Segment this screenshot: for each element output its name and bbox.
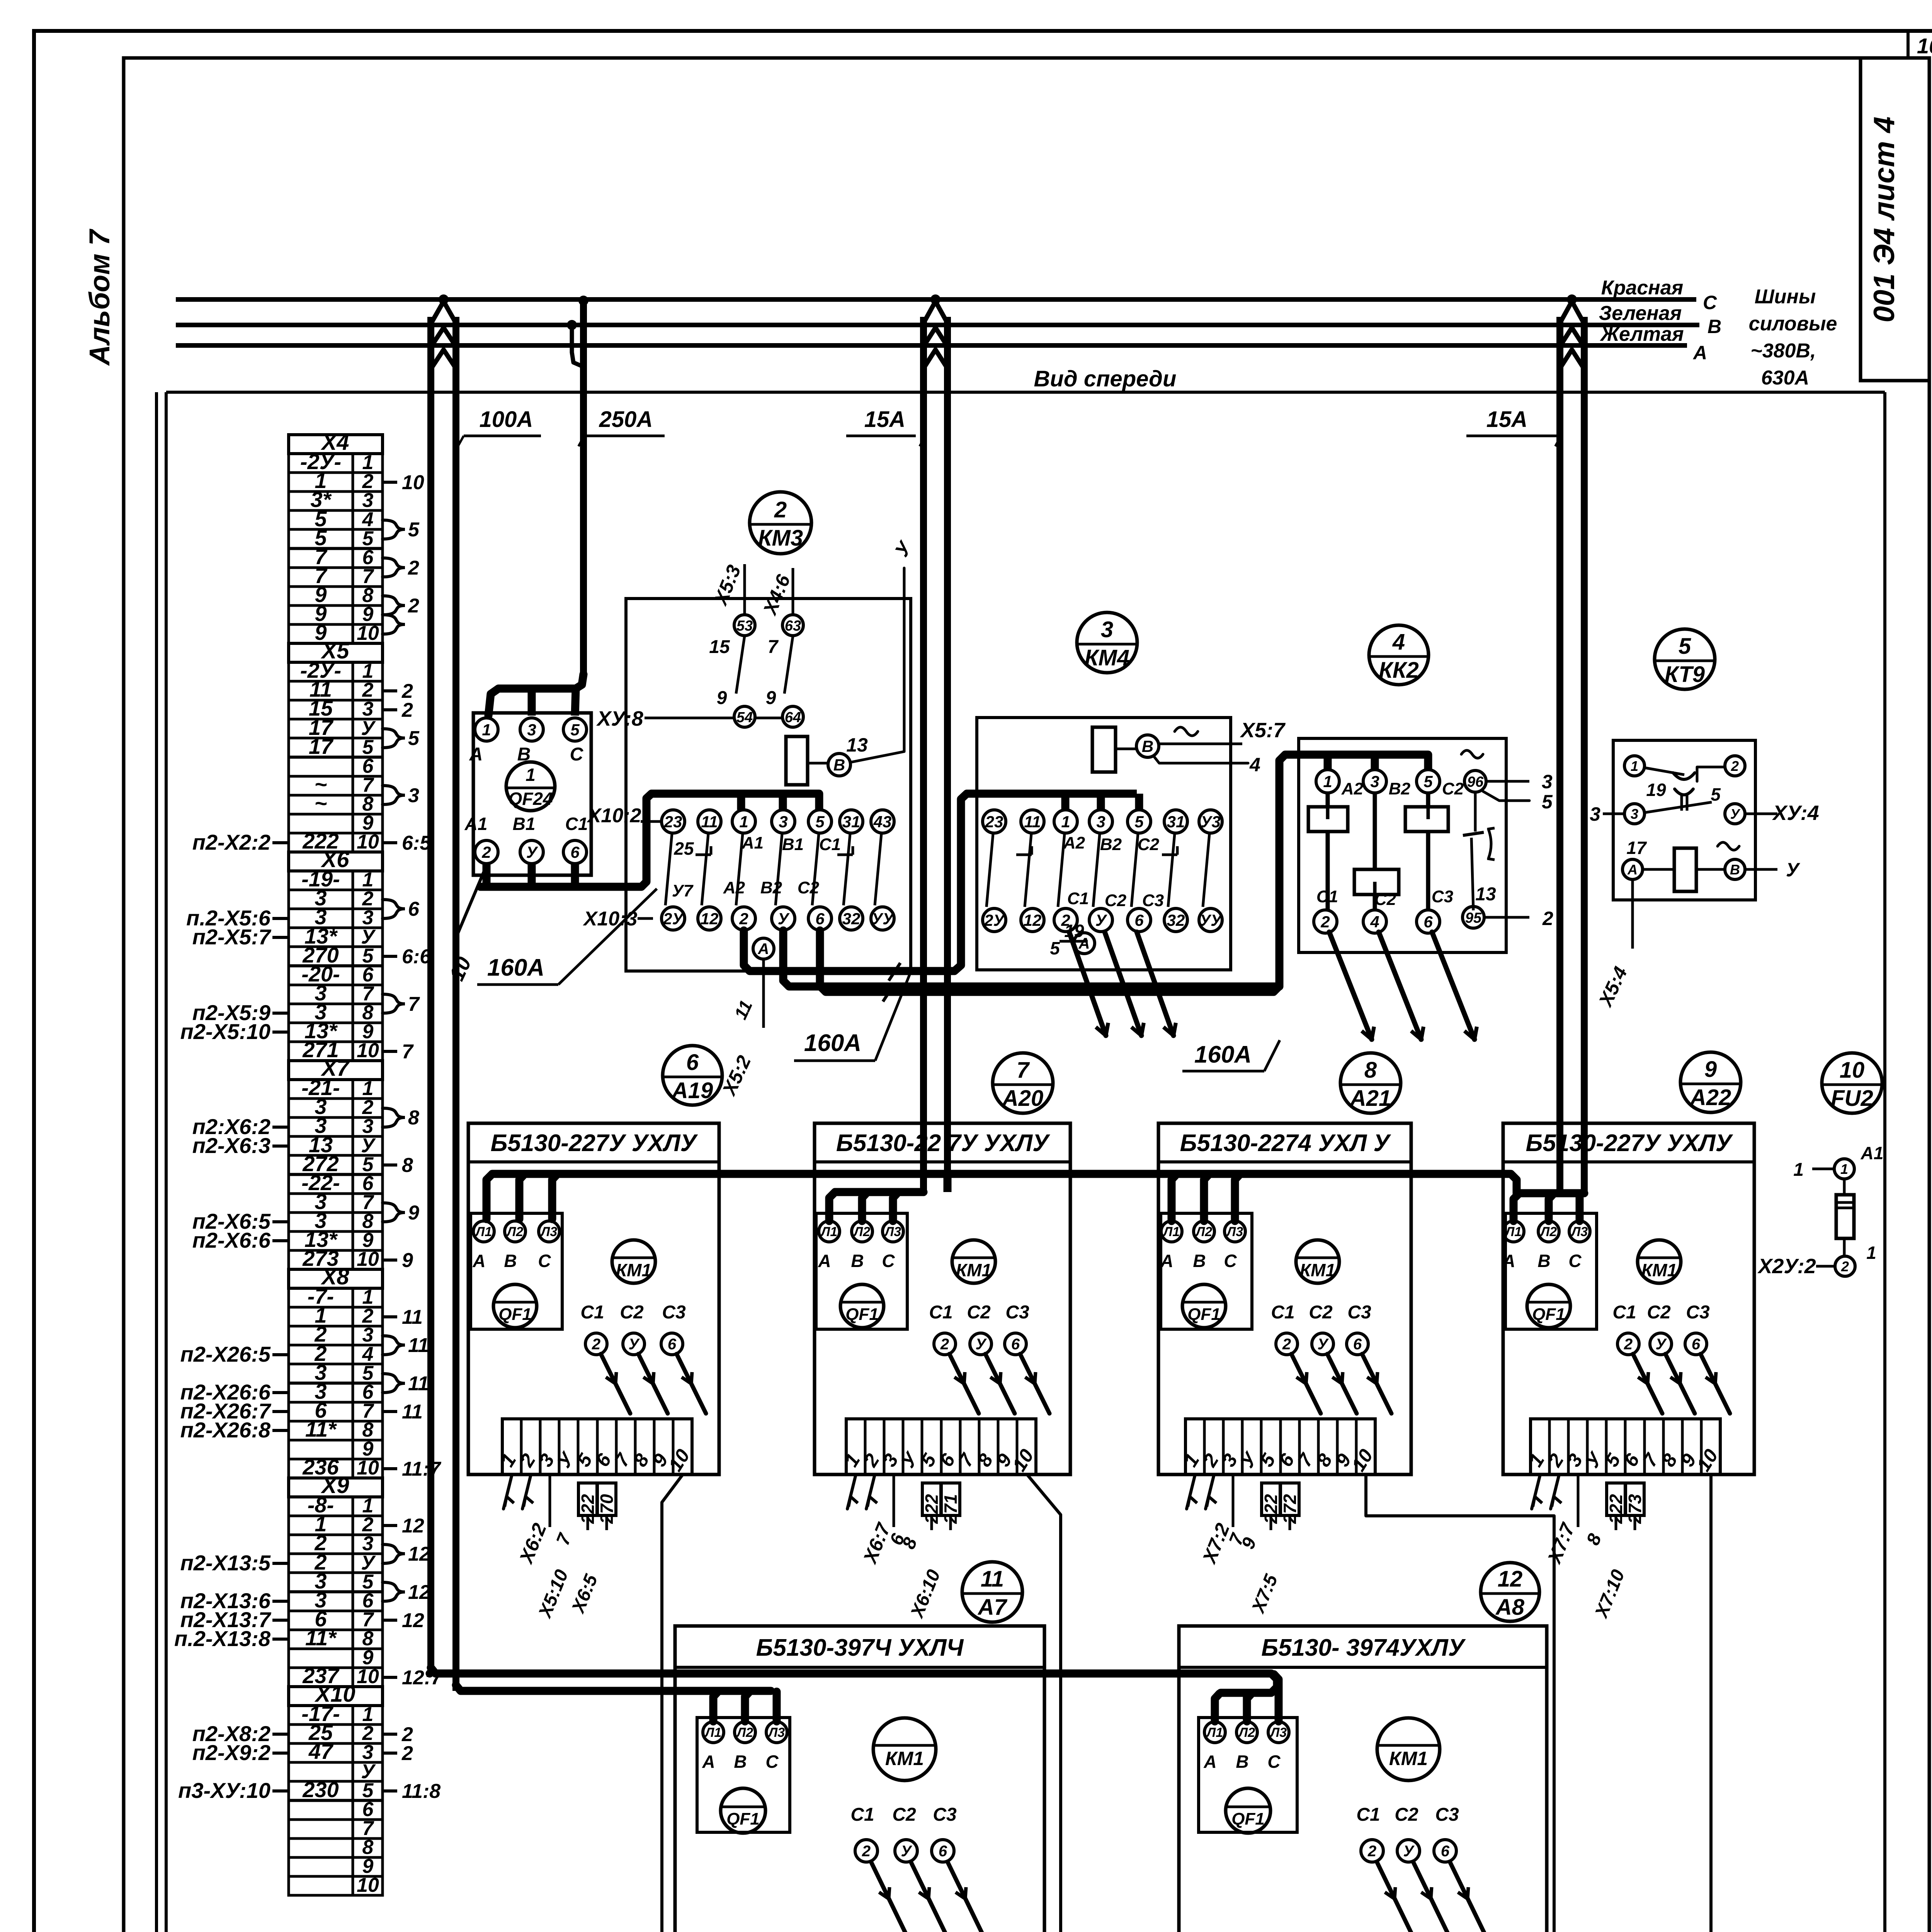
wire stub А21 Л3 — [1235, 1175, 1240, 1221]
svg-text:С1: С1 — [565, 814, 588, 834]
terminal X4:5 — [289, 529, 383, 548]
terminal X8:9 — [289, 1440, 383, 1459]
svg-text:С3: С3 — [1435, 1804, 1459, 1825]
wire KM3 output У to KK2 feed — [783, 930, 1279, 986]
svg-text:2: 2 — [1282, 1336, 1291, 1353]
block А8 breaker QF1 — [1226, 1788, 1270, 1833]
wire stub to KM4 contact 5 — [1135, 794, 1143, 810]
svg-text:А: А — [472, 1251, 485, 1271]
svg-text:5: 5 — [1542, 791, 1553, 813]
wire А22 feed hook from drop 4 — [1514, 1193, 1584, 1221]
wire А20 feed hook from drop 3 — [829, 1192, 923, 1221]
svg-text:С3: С3 — [662, 1302, 686, 1323]
svg-text:С2: С2 — [1647, 1302, 1671, 1323]
svg-text:А: А — [1627, 862, 1638, 878]
svg-text:А2: А2 — [1341, 779, 1364, 798]
svg-text:3: 3 — [1590, 803, 1600, 825]
svg-text:QF24: QF24 — [508, 789, 553, 809]
KM4 contact blade 31-32 — [1168, 834, 1175, 907]
block А7 output arrow У — [911, 1862, 947, 1932]
block А22 title strip Б5130-227У УХЛУ — [1503, 1160, 1754, 1163]
svg-text:КМ1: КМ1 — [885, 1748, 924, 1769]
svg-text:6:5: 6:5 — [402, 832, 431, 854]
KM3 contact pin 32 — [840, 907, 863, 930]
jumper bracket X6:2 — [383, 900, 405, 918]
KM4 contact pin 23 — [983, 810, 1006, 833]
svg-text:В: В — [734, 1752, 747, 1772]
svg-text:9: 9 — [717, 688, 727, 708]
svg-text:КМ1: КМ1 — [956, 1260, 992, 1280]
block А22 input terminal Л1 — [1503, 1221, 1524, 1242]
svg-text:2: 2 — [1841, 1259, 1849, 1274]
KT9 coil terminal В — [1725, 859, 1745, 879]
wire stub to KM3 contact 5 — [815, 794, 823, 810]
block А20 output arrow У — [985, 1354, 1015, 1413]
KM3 contact pin 12 — [698, 907, 721, 930]
svg-text:С1: С1 — [1067, 889, 1089, 908]
power bus phase B (Зеленая) — [176, 323, 1699, 327]
jumper tick X4:2 to 10 — [383, 481, 397, 484]
terminal X6:8 — [289, 1004, 383, 1023]
svg-text:6: 6 — [1423, 913, 1433, 931]
svg-text:С2: С2 — [620, 1302, 644, 1323]
block А8 output terminal У — [1397, 1840, 1420, 1862]
svg-text:В2: В2 — [1100, 835, 1122, 854]
svg-text:10: 10 — [357, 1039, 379, 1062]
svg-text:В2: В2 — [760, 878, 782, 897]
terminal X6:2 — [289, 890, 383, 909]
svg-text:У: У — [901, 1843, 912, 1860]
svg-text:1: 1 — [1793, 1160, 1804, 1180]
svg-text:100А: 100А — [480, 407, 533, 432]
svg-text:С1: С1 — [1316, 887, 1338, 906]
KM3 contact pin 3 — [772, 810, 795, 833]
KM4 contact blade 1-2 — [1058, 834, 1065, 907]
svg-text:31: 31 — [1167, 813, 1185, 831]
svg-text:6: 6 — [939, 1843, 947, 1860]
svg-text:В2: В2 — [1389, 779, 1411, 798]
wire stub А22 Л3 — [1576, 1194, 1584, 1221]
svg-text:Л1: Л1 — [1504, 1225, 1522, 1239]
KM3 contact pin УУ — [871, 907, 894, 930]
KM3 contact pin 11 — [698, 810, 721, 833]
block А22 output terminal У — [1650, 1333, 1672, 1355]
svg-text:В: В — [1537, 1251, 1550, 1271]
svg-text:КМ1: КМ1 — [1641, 1260, 1677, 1280]
wire У from coil circuit up — [852, 568, 904, 762]
svg-text:У3: У3 — [1201, 813, 1221, 831]
svg-text:5: 5 — [408, 727, 420, 750]
designator circle 9/А22 — [1680, 1052, 1741, 1112]
svg-text:А: А — [1160, 1251, 1173, 1271]
terminal X7:2 — [289, 1099, 383, 1117]
wire stub arrow under cell 2 — [1551, 1475, 1559, 1509]
svg-text:Б5130-22 7У УХЛУ: Б5130-22 7У УХЛУ — [836, 1130, 1050, 1156]
svg-text:12: 12 — [402, 1515, 424, 1537]
svg-text:Л3: Л3 — [1269, 1725, 1287, 1740]
svg-text:В1: В1 — [513, 814, 536, 834]
svg-text:С2: С2 — [1309, 1302, 1333, 1323]
svg-text:А: А — [818, 1251, 831, 1271]
svg-text:3: 3 — [527, 721, 536, 739]
terminal X5:У — [289, 719, 383, 738]
designator circle 3/КМ4 — [1077, 612, 1137, 673]
block А20 terminal strip — [846, 1419, 1036, 1475]
jumper bracket X4:4 — [383, 520, 405, 539]
terminal X8:2 — [289, 1307, 383, 1326]
svg-text:3: 3 — [779, 813, 787, 831]
KK2 top terminal 1 — [1316, 770, 1339, 793]
terminal X5:6 — [289, 757, 383, 776]
svg-text:п2-X26:5: п2-X26:5 — [180, 1342, 271, 1366]
svg-text:13: 13 — [1475, 884, 1496, 905]
wire stub arrow under cell 1 — [503, 1475, 512, 1509]
block А22 input terminal Л3 — [1569, 1221, 1590, 1242]
svg-text:Л2: Л2 — [1238, 1725, 1255, 1740]
KM3 contact pin 2У — [662, 907, 685, 930]
power bus phase A (Желтая) — [176, 343, 1687, 348]
terminal X6:У — [289, 928, 383, 947]
svg-text:11: 11 — [402, 1401, 423, 1423]
thermal relay KK2 mounting box — [1299, 738, 1506, 952]
svg-text:6: 6 — [1353, 1336, 1362, 1353]
svg-text:2: 2 — [1624, 1336, 1633, 1353]
block А20 output arrow 2 — [949, 1354, 979, 1413]
svg-text:КМ1: КМ1 — [616, 1260, 651, 1280]
wire QF24 output bus 160A — [483, 864, 491, 886]
block А21 title strip Б5130-2274 УХЛ У — [1158, 1160, 1411, 1163]
svg-text:С3: С3 — [1686, 1302, 1710, 1323]
block А20 input terminal Л3 — [883, 1221, 903, 1242]
svg-text:3: 3 — [1631, 806, 1638, 822]
svg-text:10: 10 — [357, 1665, 379, 1688]
terminal X9:3 — [289, 1535, 383, 1554]
svg-text:Х5:7: Х5:7 — [1240, 719, 1286, 742]
KM3 aux contact 64 — [782, 706, 803, 727]
svg-text:3: 3 — [1101, 617, 1113, 642]
svg-text:11: 11 — [701, 813, 718, 831]
block А21 input subbox — [1161, 1213, 1252, 1329]
KM3 contact blade 23-2У — [665, 834, 672, 905]
KM3 contact pin У — [772, 907, 795, 930]
terminal block X5 — [289, 643, 383, 662]
svg-text:А21: А21 — [1349, 1086, 1391, 1111]
wire 160A distribution bus to blocks А19 А21 А22 — [486, 1174, 1517, 1219]
svg-text:С1: С1 — [1271, 1302, 1294, 1323]
svg-text:п2-X9:2: п2-X9:2 — [192, 1740, 270, 1765]
KM4 contact pin У — [1089, 908, 1112, 932]
wire stub А8 Л3 — [1274, 1674, 1279, 1721]
KK2 bottom terminal 4 — [1363, 910, 1386, 933]
wire number box 271 — [941, 1483, 960, 1515]
svg-text:А1: А1 — [1861, 1143, 1884, 1163]
wire stub arrow under cell 2 — [522, 1475, 531, 1509]
terminal X10:10 — [289, 1876, 383, 1895]
svg-text:В: В — [1708, 316, 1721, 337]
KM3 contact pin 1 — [732, 810, 755, 833]
block А20 input subbox — [816, 1213, 907, 1329]
block А20 contactor КМ1 — [952, 1240, 995, 1283]
svg-text:43: 43 — [873, 813, 892, 831]
terminal X6:6 — [289, 966, 383, 985]
wire stub to KK2 terminal 3 — [1371, 755, 1379, 770]
wire А20 terminal 10 to null bus — [1027, 1475, 1061, 1932]
svg-text:Л3: Л3 — [884, 1225, 901, 1239]
block А21 breaker QF1 — [1182, 1284, 1226, 1328]
terminal block X4 — [289, 435, 383, 454]
svg-text:1: 1 — [526, 765, 536, 785]
svg-text:2У: 2У — [984, 911, 1005, 929]
svg-text:С2: С2 — [892, 1804, 916, 1825]
svg-text:11:8: 11:8 — [402, 1780, 440, 1803]
svg-text:15: 15 — [709, 637, 730, 657]
QF24 bottom terminal 6 — [563, 840, 587, 864]
svg-text:У: У — [1403, 1843, 1415, 1860]
svg-text:250А: 250А — [599, 407, 653, 432]
wire number box 273 — [1626, 1483, 1644, 1515]
block А21 output arrow 6 — [1362, 1354, 1391, 1413]
svg-text:У: У — [1317, 1336, 1329, 1353]
svg-text:Б5130-2274 УХЛ У: Б5130-2274 УХЛ У — [1180, 1130, 1391, 1156]
KM4 contact pin У3 — [1199, 810, 1222, 833]
svg-text:А22: А22 — [1689, 1085, 1731, 1110]
KM4 contact blade У3-УУ — [1203, 834, 1209, 907]
svg-text:С2: С2 — [1374, 890, 1396, 909]
svg-text:10: 10 — [357, 1874, 379, 1896]
block А20 input terminal Л1 — [819, 1221, 840, 1242]
svg-text:А: А — [469, 744, 483, 765]
svg-text:63: 63 — [785, 618, 801, 634]
KT9 terminal 2 — [1725, 756, 1745, 776]
terminal X8:5 — [289, 1364, 383, 1383]
jumper bracket X8:5 — [383, 1374, 405, 1393]
svg-text:Б5130-397Ч УХЛЧ: Б5130-397Ч УХЛЧ — [756, 1634, 964, 1661]
svg-text:19: 19 — [1646, 780, 1666, 800]
terminal X7:1 — [289, 1080, 383, 1099]
terminal X8:8 — [289, 1421, 383, 1440]
svg-text:С2: С2 — [1105, 891, 1127, 910]
svg-text:У: У — [1095, 911, 1108, 929]
KM4 contact blade 11-12 — [1025, 834, 1031, 907]
wire stub to KM3 contact 3 — [779, 794, 787, 810]
svg-text:10: 10 — [402, 471, 424, 494]
jumper tick X8:10 to 11:7 — [383, 1467, 397, 1470]
svg-text:КМ4: КМ4 — [1085, 645, 1129, 670]
svg-text:53: 53 — [736, 618, 753, 634]
wire stub Х4:6 to KM3 aux 63 — [792, 568, 794, 615]
wire stub Х6:7 — [893, 1475, 895, 1527]
terminal X5:2 — [289, 681, 383, 700]
designator circle 8/А21 — [1340, 1053, 1401, 1113]
block А22 output terminal 2 — [1617, 1333, 1639, 1355]
KK2 top terminal 5 — [1417, 770, 1440, 793]
svg-text:С: С — [882, 1251, 895, 1271]
terminal X10:8 — [289, 1838, 383, 1857]
svg-text:силовые: силовые — [1749, 313, 1837, 335]
block А7 input terminal Л1 — [703, 1722, 724, 1743]
svg-text:2: 2 — [1542, 908, 1553, 929]
svg-text:А2: А2 — [1063, 833, 1085, 852]
block А7 output terminal У — [895, 1840, 917, 1862]
contactor KM3 mounting box — [626, 599, 911, 971]
wire number box 222 — [578, 1483, 597, 1515]
KM3 contact pin 5 — [808, 810, 832, 833]
block А20 output terminal У — [970, 1333, 992, 1355]
svg-text:8: 8 — [408, 1107, 419, 1129]
svg-text:С: С — [538, 1251, 551, 1271]
N mark above В wire — [1175, 727, 1198, 736]
block А20 output arrow 6 — [1020, 1354, 1049, 1413]
terminal X9:6 — [289, 1592, 383, 1611]
wire stub А19 Л3 — [552, 1175, 557, 1219]
svg-text:8: 8 — [402, 1154, 413, 1177]
terminal X9:8 — [289, 1630, 383, 1649]
svg-text:С2: С2 — [967, 1302, 991, 1323]
svg-text:С: С — [765, 1752, 779, 1772]
svg-text:5: 5 — [815, 813, 825, 831]
block А20 title strip Б5130-22 7У УХЛУ — [815, 1160, 1070, 1163]
svg-text:5: 5 — [1679, 634, 1691, 659]
svg-text:С1: С1 — [929, 1302, 952, 1323]
jumper bracket X7:7 — [383, 1203, 405, 1222]
svg-text:У: У — [1655, 1336, 1667, 1353]
fuse FU2 terminal 1 — [1834, 1159, 1854, 1179]
sheet number corner box 10 — [1906, 31, 1910, 58]
svg-text:6: 6 — [570, 843, 580, 861]
wire feeder hook from drop2 into QF24 top — [488, 674, 583, 716]
svg-text:УУ: УУ — [872, 910, 895, 928]
svg-text:Л2: Л2 — [1539, 1225, 1557, 1239]
svg-text:54: 54 — [736, 709, 753, 726]
block А7 output arrow 2 — [871, 1862, 907, 1932]
terminal X9:9 — [289, 1649, 383, 1668]
jumper tick X8:7 to 11 — [383, 1410, 397, 1413]
svg-text:5: 5 — [570, 721, 580, 739]
svg-text:9: 9 — [408, 1202, 419, 1224]
panel outline box front view — [166, 391, 1885, 394]
jumper bracket X6:7 — [383, 994, 405, 1013]
block А8 output arrow 2 — [1377, 1862, 1413, 1932]
svg-text:В: В — [1193, 1251, 1206, 1271]
fuse FU2 body — [1836, 1195, 1854, 1238]
wire stub to KK2 terminal 5 — [1424, 755, 1432, 770]
KM3 aux blade 53-54 — [736, 636, 745, 694]
wire number box 272 — [1281, 1483, 1299, 1515]
svg-text:Л1: Л1 — [1162, 1225, 1180, 1239]
svg-text:QF1: QF1 — [1187, 1305, 1221, 1324]
wire stub Х7:7 — [1577, 1475, 1580, 1527]
svg-text:С: С — [1267, 1752, 1281, 1772]
bus drop 2 (250A feeder to QF24) — [580, 301, 587, 674]
block А21 output arrow У — [1327, 1354, 1357, 1413]
svg-text:С1: С1 — [850, 1804, 874, 1825]
wire stub А21 Л1 — [1172, 1175, 1176, 1221]
svg-text:6: 6 — [686, 1050, 699, 1075]
svg-text:QF1: QF1 — [498, 1305, 532, 1324]
wire В to У output — [1745, 868, 1777, 871]
KM3 coil — [786, 736, 808, 785]
terminal X4:6 — [289, 549, 383, 568]
terminal X7:6 — [289, 1175, 383, 1194]
svg-text:Л2: Л2 — [736, 1725, 753, 1740]
svg-text:QF1: QF1 — [1532, 1305, 1565, 1324]
jumper tick X9:10 to 12:7 — [383, 1676, 397, 1679]
svg-text:А2: А2 — [723, 878, 745, 897]
svg-text:11: 11 — [408, 1334, 429, 1357]
svg-text:Л2: Л2 — [506, 1225, 523, 1239]
block А22 terminal strip — [1531, 1419, 1720, 1475]
svg-text:У7: У7 — [672, 881, 694, 900]
KM4 output arrows to motor — [1069, 932, 1106, 1036]
terminal X7:7 — [289, 1194, 383, 1213]
jumper tick X8:2 to 11 — [383, 1315, 397, 1318]
block А19 terminal strip — [502, 1419, 692, 1475]
svg-text:1: 1 — [482, 721, 491, 739]
svg-text:25: 25 — [673, 838, 694, 859]
wire coil to В — [1116, 748, 1136, 750]
block А21 input terminal Л1 — [1161, 1221, 1182, 1242]
KM4 contact pin 6 — [1128, 908, 1151, 932]
svg-text:А19: А19 — [671, 1078, 713, 1103]
svg-text:4: 4 — [1392, 629, 1405, 655]
terminal X4:10 — [289, 624, 383, 643]
svg-text:Х10:2: Х10:2 — [587, 804, 641, 827]
svg-text:6: 6 — [1441, 1843, 1450, 1860]
KM3 aux contact 53 — [734, 615, 755, 636]
QF24 bottom terminal 2 — [475, 840, 498, 864]
KM3 contact pin 31 — [840, 810, 863, 833]
wire stub А8 Л2 — [1243, 1693, 1251, 1721]
svg-text:6: 6 — [815, 910, 825, 928]
KM4 contact pin 3 — [1089, 810, 1112, 833]
terminal X10:6 — [289, 1801, 383, 1820]
svg-text:У: У — [778, 910, 790, 928]
wire stub to KK2 terminal 1 — [1324, 755, 1332, 770]
svg-text:2: 2 — [401, 1742, 413, 1765]
svg-text:5: 5 — [1134, 813, 1144, 831]
svg-text:15А: 15А — [1486, 407, 1527, 432]
svg-text:Л1: Л1 — [474, 1225, 492, 1239]
terminal X9:5 — [289, 1573, 383, 1592]
terminal X6:10 — [289, 1042, 383, 1061]
svg-text:1: 1 — [1631, 758, 1638, 774]
wire stub arrow under cell 2 — [1206, 1475, 1214, 1509]
wire stub 3 left — [1603, 813, 1624, 815]
terminal X5:7 — [289, 776, 383, 795]
svg-text:В1: В1 — [782, 835, 804, 854]
terminal X6:9 — [289, 1023, 383, 1042]
svg-text:95: 95 — [1465, 910, 1482, 926]
KK2 bottom terminal 2 — [1314, 910, 1337, 933]
terminal X5:1 — [289, 662, 383, 681]
svg-text:3: 3 — [1542, 771, 1553, 793]
wire number box 270 — [597, 1483, 616, 1515]
terminal X10:1 — [289, 1706, 383, 1725]
jumper bracket X4:8 — [383, 596, 405, 615]
jumper tick X7:5 to 8 — [383, 1163, 397, 1167]
block А8 output terminal 2 — [1361, 1840, 1383, 1862]
block А7 input subbox — [697, 1718, 790, 1832]
svg-text:КТ9: КТ9 — [1665, 662, 1705, 687]
block А19 input terminal Л1 — [473, 1221, 494, 1242]
terminal X4:7 — [289, 568, 383, 587]
power bus phase C (Красная) — [176, 297, 1696, 302]
svg-text:С2: С2 — [798, 878, 820, 897]
svg-text:3: 3 — [408, 784, 419, 807]
svg-text:3: 3 — [1096, 813, 1105, 831]
svg-text:1: 1 — [1061, 813, 1070, 831]
block А22 input subbox — [1505, 1213, 1597, 1329]
